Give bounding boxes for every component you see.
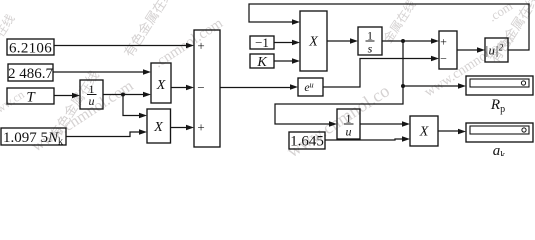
svg-text:T: T	[26, 90, 36, 106]
svg-text:Rp: Rp	[490, 97, 505, 115]
svg-text:在线: 在线	[0, 12, 18, 40]
svg-text:X: X	[156, 78, 166, 93]
svg-text:u: u	[346, 125, 352, 139]
svg-text:1: 1	[346, 112, 352, 126]
svg-text:1.097 5Nk: 1.097 5Nk	[3, 130, 63, 148]
svg-text:ak: ak	[493, 143, 506, 156]
svg-text:X: X	[153, 120, 163, 135]
svg-text:金属在线: 金属在线	[380, 0, 419, 46]
svg-text:−: −	[440, 52, 447, 66]
svg-text:K: K	[256, 55, 267, 70]
svg-text:eu: eu	[304, 80, 313, 94]
svg-text:6.2106: 6.2106	[9, 41, 52, 57]
svg-text:X: X	[419, 125, 429, 140]
svg-text:1: 1	[367, 29, 373, 43]
svg-text:+: +	[197, 120, 204, 135]
svg-text:+: +	[440, 35, 447, 49]
svg-text:s: s	[368, 42, 373, 56]
svg-text:u: u	[89, 94, 95, 108]
svg-text:1.645: 1.645	[290, 134, 324, 150]
svg-text:X: X	[308, 35, 318, 50]
svg-text:2 486.7: 2 486.7	[8, 66, 54, 82]
svg-text:+: +	[197, 38, 204, 53]
svg-text:−1: −1	[255, 35, 269, 50]
svg-text:−: −	[197, 80, 204, 95]
